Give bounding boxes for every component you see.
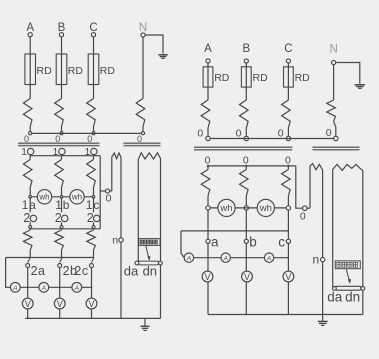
svg-text:2: 2 [55, 211, 62, 225]
svg-text:wh: wh [71, 193, 82, 202]
svg-text:wh: wh [259, 203, 272, 214]
svg-text:A: A [12, 285, 18, 292]
svg-text:N: N [139, 22, 147, 34]
svg-text:0: 0 [87, 134, 92, 144]
svg-text:0: 0 [236, 128, 242, 140]
svg-text:n: n [112, 235, 118, 247]
svg-text:1: 1 [21, 146, 27, 158]
svg-text:A: A [204, 43, 212, 55]
svg-text:b: b [249, 234, 257, 249]
svg-text:RD: RD [214, 72, 230, 84]
svg-text:0: 0 [24, 134, 29, 144]
svg-text:n: n [313, 253, 320, 267]
svg-text:RD: RD [37, 65, 53, 77]
svg-text:V: V [244, 272, 250, 282]
svg-text:A: A [266, 255, 272, 262]
svg-text:wh: wh [219, 203, 232, 214]
svg-text:2a: 2a [31, 264, 46, 278]
svg-text:V: V [204, 272, 210, 282]
svg-text:wh: wh [38, 193, 49, 202]
svg-text:A: A [74, 285, 80, 292]
svg-text:N: N [329, 44, 337, 56]
svg-text:V: V [88, 299, 94, 309]
svg-text:RD: RD [68, 65, 84, 77]
svg-text:dn: dn [143, 264, 157, 279]
svg-text:V: V [25, 299, 31, 309]
svg-text:C: C [284, 43, 292, 55]
svg-text:RD: RD [253, 72, 269, 84]
svg-text:0: 0 [106, 192, 112, 204]
svg-text:1b: 1b [55, 198, 70, 212]
svg-text:1a: 1a [22, 198, 37, 212]
svg-text:da: da [124, 264, 139, 279]
svg-text:0: 0 [278, 128, 284, 140]
svg-text:c: c [278, 234, 285, 249]
svg-text:a: a [211, 234, 219, 249]
svg-text:da: da [327, 290, 343, 305]
svg-text:0: 0 [326, 127, 332, 139]
svg-text:A: A [186, 255, 192, 262]
svg-text:B: B [242, 43, 250, 55]
svg-text:RD: RD [100, 65, 116, 77]
svg-text:A: A [41, 285, 47, 292]
svg-text:V: V [57, 299, 63, 309]
svg-text:2c: 2c [74, 264, 88, 278]
svg-text:0: 0 [55, 134, 60, 144]
svg-text:0: 0 [197, 128, 203, 140]
svg-text:0: 0 [137, 134, 142, 144]
svg-text:0: 0 [300, 211, 306, 223]
svg-text:V: V [285, 272, 291, 282]
svg-text:2: 2 [23, 211, 30, 225]
svg-text:dn: dn [345, 290, 360, 305]
svg-text:RD: RD [295, 72, 311, 84]
svg-text:2: 2 [87, 211, 94, 225]
svg-text:A: A [222, 255, 228, 262]
